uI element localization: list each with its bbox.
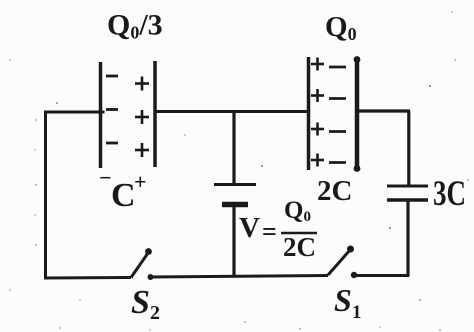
capacitor 2C left plate: [307, 57, 311, 170]
battery V value label V = Q0/2C: [239, 197, 317, 262]
capacitor C left plate: [99, 62, 103, 168]
capacitor 3C top plate: [387, 185, 428, 188]
wire bottom left: [44, 276, 131, 280]
switch S1 lever: [328, 250, 350, 275]
capacitor value label C with polarity superscripts: [99, 165, 147, 214]
plate end blobs on capacitor 2C right plate: [354, 56, 361, 63]
wire top middle: [155, 110, 308, 113]
node label Q0/3: [107, 9, 163, 43]
wire bottom right: [354, 274, 409, 277]
svg-text:2: 2: [150, 302, 160, 324]
svg-text:S: S: [334, 282, 352, 318]
wire right lower vertical: [406, 200, 409, 277]
wire right upper vertical: [407, 111, 410, 185]
svg-text:V: V: [239, 212, 260, 244]
charge signs on capacitor 2C, plus column: [311, 58, 324, 167]
svg-text:2C: 2C: [283, 232, 316, 262]
battery V stem lower wire: [232, 205, 235, 276]
svg-text:−: −: [99, 165, 112, 190]
switch S2 lever: [131, 253, 148, 278]
svg-text:1: 1: [352, 302, 362, 323]
capacitor C right plate: [153, 61, 157, 167]
switch S1 contact dot: [351, 272, 357, 278]
svg-text:2C: 2C: [317, 175, 352, 207]
svg-text:C: C: [111, 177, 136, 214]
wire bottom middle: [150, 276, 328, 278]
node label Q0: [325, 11, 357, 44]
switch S1 lever tip dot: [347, 246, 354, 253]
charge signs on capacitor C, plus column: [135, 77, 149, 158]
battery V negative (short thick) plate: [222, 202, 248, 208]
battery V stem upper wire: [232, 112, 235, 185]
svg-text:+: +: [134, 169, 147, 194]
switch S2 lever tip dot: [145, 248, 152, 255]
wire top-left: [44, 111, 105, 114]
battery V positive (long) plate: [214, 183, 256, 186]
svg-text:S: S: [131, 284, 150, 321]
svg-text:=: =: [262, 217, 277, 246]
capacitor 2C right plate: [355, 57, 360, 171]
capacitor 3C bottom plate: [387, 198, 428, 202]
switch S2 contact dot: [148, 274, 154, 280]
wire left vertical: [44, 111, 47, 279]
charge signs on capacitor 2C, minus column: [329, 67, 346, 163]
wire top right: [357, 109, 410, 112]
charge signs on capacitor C, minus column: [106, 76, 118, 143]
svg-text:3C: 3C: [433, 173, 466, 213]
